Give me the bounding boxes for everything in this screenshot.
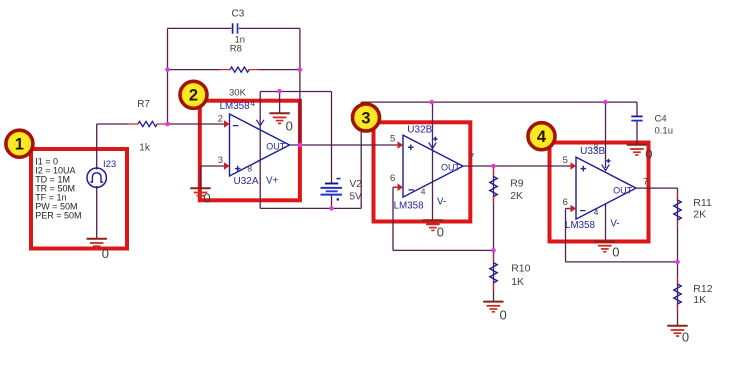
svg-text:7: 7: [643, 176, 648, 187]
svg-text:6: 6: [563, 197, 568, 208]
svg-text:5: 5: [390, 134, 395, 145]
svg-text:5: 5: [563, 155, 568, 166]
svg-text:2K: 2K: [693, 209, 706, 221]
svg-text:5V: 5V: [350, 191, 363, 202]
svg-text:R7: R7: [137, 99, 150, 110]
svg-text:6: 6: [390, 173, 395, 184]
svg-text:OUT: OUT: [441, 163, 461, 173]
svg-text:2: 2: [189, 87, 198, 105]
svg-text:OUT: OUT: [613, 185, 633, 195]
svg-text:V-: V-: [437, 196, 446, 207]
svg-text:3: 3: [361, 109, 370, 127]
svg-text:0: 0: [102, 246, 109, 261]
svg-text:LM358: LM358: [220, 101, 251, 112]
svg-text:0: 0: [286, 119, 293, 134]
svg-text:I23: I23: [103, 159, 116, 170]
svg-text:4: 4: [421, 187, 426, 197]
svg-text:0: 0: [203, 191, 210, 206]
svg-text:0: 0: [612, 245, 619, 260]
svg-text:C4: C4: [655, 113, 667, 124]
svg-text:30K: 30K: [229, 88, 247, 99]
svg-text:C3: C3: [232, 9, 245, 20]
svg-text:U32A: U32A: [234, 176, 259, 187]
svg-text:0: 0: [437, 225, 444, 240]
svg-text:1K: 1K: [511, 276, 524, 288]
svg-text:4: 4: [250, 98, 255, 108]
svg-text:0: 0: [645, 146, 652, 161]
svg-text:V-: V-: [610, 219, 619, 230]
svg-text:2: 2: [218, 113, 223, 124]
svg-text:LM358: LM358: [394, 200, 425, 211]
svg-text:V+: V+: [266, 175, 279, 186]
svg-text:0: 0: [682, 330, 689, 345]
svg-text:3: 3: [218, 155, 223, 166]
svg-text:LM358: LM358: [565, 220, 596, 231]
svg-text:4: 4: [537, 128, 547, 146]
svg-text:8: 8: [247, 164, 252, 174]
svg-text:1K: 1K: [693, 294, 706, 306]
svg-text:R11: R11: [693, 197, 712, 209]
svg-text:R9: R9: [510, 178, 524, 190]
svg-text:0.1u: 0.1u: [655, 126, 674, 137]
svg-text:U33B: U33B: [580, 146, 605, 157]
svg-text:2K: 2K: [510, 190, 523, 202]
svg-text:0: 0: [500, 307, 507, 322]
svg-text:U32B: U32B: [407, 124, 432, 135]
svg-text:7: 7: [469, 152, 474, 163]
svg-text:PER = 50M: PER = 50M: [35, 210, 81, 220]
svg-text:OUT: OUT: [266, 142, 286, 152]
svg-text:1: 1: [15, 136, 24, 154]
svg-text:V2: V2: [350, 179, 363, 190]
svg-text:R8: R8: [230, 44, 242, 55]
svg-text:R12: R12: [693, 283, 712, 295]
svg-text:1k: 1k: [139, 142, 151, 153]
svg-text:4: 4: [594, 207, 599, 217]
svg-text:R10: R10: [511, 262, 530, 274]
